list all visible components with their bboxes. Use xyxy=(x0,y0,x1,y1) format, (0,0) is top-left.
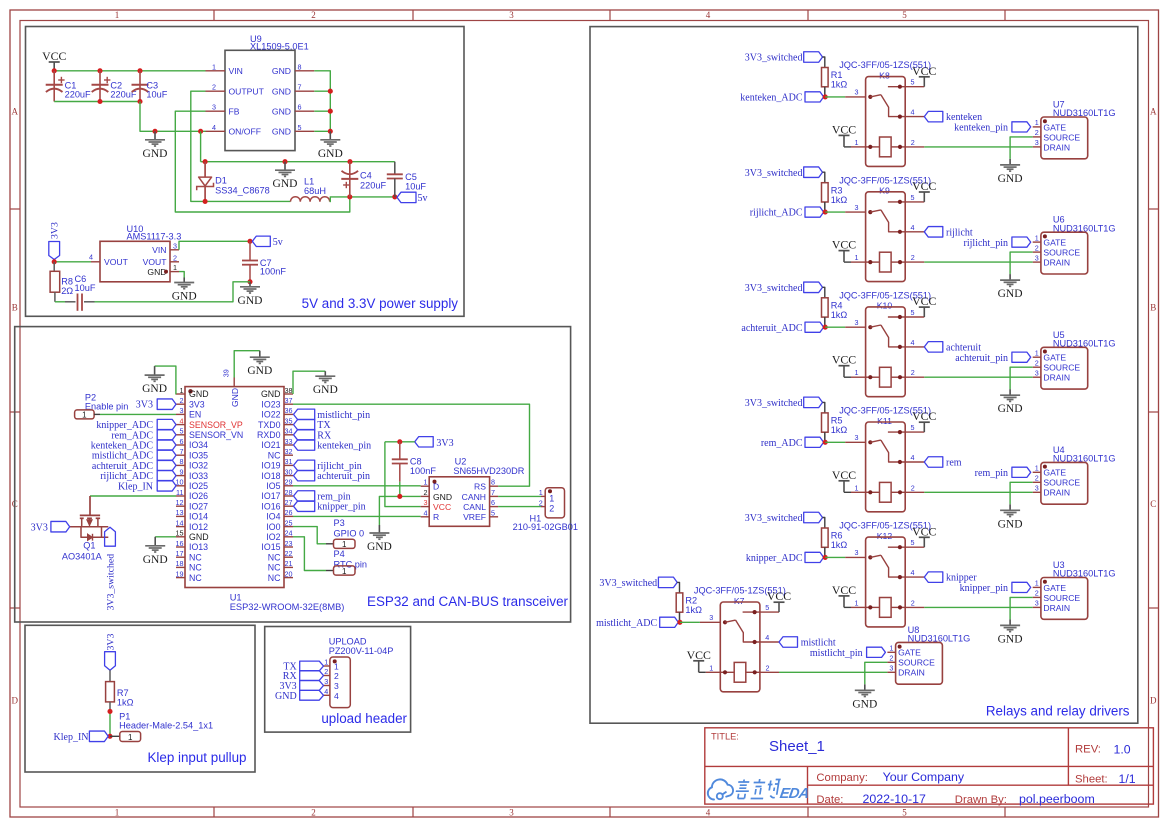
power flag VCC xyxy=(42,49,66,71)
wire rijlicht_ADC to relay pin 3 xyxy=(825,203,865,212)
svg-text:8: 8 xyxy=(491,478,495,487)
svg-text:3V3_switched: 3V3_switched xyxy=(599,578,657,589)
wire C7 to ground xyxy=(247,279,252,284)
title block REV field xyxy=(1075,743,1131,757)
svg-text:upload header: upload header xyxy=(321,711,407,726)
power VCC relay K8 pin 5 xyxy=(905,64,936,87)
svg-text:SN65HVD230DR: SN65HVD230DR xyxy=(453,466,524,476)
svg-text:3: 3 xyxy=(324,677,328,686)
svg-text:18: 18 xyxy=(176,559,184,568)
ground GND U2 xyxy=(367,525,392,553)
svg-text:2: 2 xyxy=(311,10,316,20)
svg-text:1: 1 xyxy=(342,540,347,549)
wire IO23 to U2 RS xyxy=(293,404,530,486)
svg-text:K11: K11 xyxy=(877,416,892,426)
svg-text:5v: 5v xyxy=(418,193,428,204)
svg-text:VCC: VCC xyxy=(433,502,451,512)
svg-text:DRAIN: DRAIN xyxy=(1043,373,1070,383)
svg-text:IO16: IO16 xyxy=(261,501,280,511)
svg-text:SOURCE: SOURCE xyxy=(898,658,935,668)
wire CANH to H1 pin1 xyxy=(498,495,545,497)
svg-text:1: 1 xyxy=(173,263,177,272)
ground GND U1 pin39 xyxy=(247,351,272,378)
svg-text:3V3_switched: 3V3_switched xyxy=(745,283,803,294)
svg-text:VOUT: VOUT xyxy=(104,257,129,267)
wire relay K8 pin 2 to U7 drain xyxy=(905,146,1032,148)
svg-text:GND: GND xyxy=(272,86,291,96)
svg-text:10uF: 10uF xyxy=(146,90,167,100)
svg-text:3V3_switched: 3V3_switched xyxy=(106,554,117,611)
svg-text:1: 1 xyxy=(115,10,120,20)
svg-text:21: 21 xyxy=(285,559,293,568)
net flag knipper_pin to U3 gate xyxy=(960,582,1031,594)
svg-text:1: 1 xyxy=(324,658,328,667)
svg-text:achteruit_pin: achteruit_pin xyxy=(955,353,1008,364)
svg-text:4: 4 xyxy=(334,691,339,701)
svg-text:1: 1 xyxy=(1035,579,1039,588)
svg-text:1: 1 xyxy=(1035,233,1039,242)
svg-text:GATE: GATE xyxy=(1043,583,1066,593)
ground GND U1 pin1 xyxy=(142,366,167,395)
net flag mistlicht relay pin 4 xyxy=(760,637,836,649)
svg-text:D: D xyxy=(1150,696,1157,706)
svg-text:GND: GND xyxy=(998,173,1023,185)
svg-text:Date:: Date: xyxy=(816,794,843,806)
transistor Q1 AO3401A xyxy=(62,496,108,561)
wire C3 bottom to ON/OFF net xyxy=(140,102,206,134)
ground GND U10 xyxy=(172,278,197,303)
svg-text:19: 19 xyxy=(176,569,184,578)
net flag mistlicht_pin U1 pin36 xyxy=(294,409,371,421)
wire U10 VIN to 5v xyxy=(179,239,253,250)
svg-text:2: 2 xyxy=(911,483,915,492)
svg-text:8: 8 xyxy=(298,62,302,71)
net flag rijlicht relay pin 4 xyxy=(905,227,973,239)
svg-text:3V3: 3V3 xyxy=(136,400,153,411)
svg-text:4: 4 xyxy=(706,808,711,818)
svg-text:AO3401A: AO3401A xyxy=(62,551,103,561)
wire rem_ADC to relay pin 3 xyxy=(825,433,865,442)
capacitor C5 10uF xyxy=(387,162,427,197)
net flag rem_ADC xyxy=(761,437,828,449)
svg-text:1: 1 xyxy=(128,733,133,742)
svg-text:GATE: GATE xyxy=(1043,122,1066,132)
power VCC relay K7 pin 1 xyxy=(687,648,721,673)
svg-text:kenteken_pin: kenteken_pin xyxy=(954,123,1008,134)
svg-text:rem_pin: rem_pin xyxy=(975,468,1008,479)
svg-text:1: 1 xyxy=(549,494,554,504)
net flag 3V3_switched Q1 drain xyxy=(105,527,117,610)
svg-text:2: 2 xyxy=(1035,589,1039,598)
title block Drawn By field xyxy=(955,792,1095,806)
svg-text:210-91-02GB01: 210-91-02GB01 xyxy=(513,522,578,532)
svg-text:C4: C4 xyxy=(360,171,372,181)
net flag achteruit_ADC xyxy=(741,322,827,334)
wire U10 GND pin to ground xyxy=(179,272,184,278)
section title: 5V and 3.3V power supply xyxy=(302,296,459,311)
svg-text:13: 13 xyxy=(176,508,184,517)
svg-text:B: B xyxy=(1150,303,1156,313)
svg-text:RXD0: RXD0 xyxy=(257,430,281,440)
svg-text:1: 1 xyxy=(115,808,120,818)
svg-text:4: 4 xyxy=(911,453,915,462)
power VCC relay K12 pin 5 xyxy=(905,524,936,547)
svg-text:16: 16 xyxy=(176,539,184,548)
wire VCC rail to U9 VIN xyxy=(52,68,206,73)
ground GND U4 source xyxy=(998,504,1023,530)
svg-text:Sheet:: Sheet: xyxy=(1075,774,1108,786)
svg-text:29: 29 xyxy=(285,478,293,487)
wire knipper_ADC to relay pin 3 xyxy=(825,548,865,557)
svg-text:VCC: VCC xyxy=(832,238,856,252)
svg-text:pol.peerboom: pol.peerboom xyxy=(1019,792,1095,806)
svg-text:C5: C5 xyxy=(405,172,417,182)
svg-text:PZ200V-11-04P: PZ200V-11-04P xyxy=(329,646,394,656)
svg-text:2: 2 xyxy=(1035,128,1039,137)
svg-text:10: 10 xyxy=(176,478,184,487)
svg-text:GND: GND xyxy=(143,554,168,566)
svg-text:NC: NC xyxy=(268,573,281,583)
svg-text:5: 5 xyxy=(911,538,915,547)
svg-text:GATE: GATE xyxy=(1043,238,1066,248)
svg-text:14: 14 xyxy=(176,518,184,527)
svg-text:K7: K7 xyxy=(734,596,745,606)
svg-text:1: 1 xyxy=(342,567,347,576)
svg-text:2: 2 xyxy=(1035,474,1039,483)
svg-text:3V3: 3V3 xyxy=(436,438,453,449)
svg-text:3: 3 xyxy=(180,406,184,415)
net flag 3V3 upload header pin3 xyxy=(279,681,323,692)
svg-text:IO15: IO15 xyxy=(261,542,280,552)
svg-text:IO32: IO32 xyxy=(189,461,208,471)
svg-text:GND: GND xyxy=(367,541,392,553)
svg-text:GND: GND xyxy=(261,389,281,399)
svg-text:37: 37 xyxy=(285,396,293,405)
capacitor C4 220uF xyxy=(341,162,386,197)
svg-text:rijlicht_pin: rijlicht_pin xyxy=(964,238,1008,249)
svg-text:26: 26 xyxy=(285,508,293,517)
svg-text:achteruit_pin: achteruit_pin xyxy=(317,471,370,482)
svg-text:IO13: IO13 xyxy=(189,542,208,552)
ground GND power input xyxy=(143,131,168,160)
net flag GND upload header pin4 xyxy=(275,690,323,701)
wire CANL to H1 pin2 xyxy=(498,506,545,508)
net flag rem_pin U1 pin28 xyxy=(294,491,351,503)
wire L1 to 5v rail xyxy=(330,194,398,201)
svg-text:D1: D1 xyxy=(215,176,227,186)
svg-text:10uF: 10uF xyxy=(405,182,426,192)
wire 3V3 to U10 VOUT xyxy=(52,259,91,264)
svg-text:GND: GND xyxy=(998,403,1023,415)
svg-text:Header-Male-2.54_1x1: Header-Male-2.54_1x1 xyxy=(119,721,213,731)
svg-text:2: 2 xyxy=(334,671,339,681)
svg-text:VCC: VCC xyxy=(912,179,936,193)
relay K11 JQC-3FF/05-1ZS(551) xyxy=(839,406,931,512)
resistor R8 2ohm xyxy=(50,262,73,302)
transistor U5 NUD3160LT1G xyxy=(1033,330,1116,389)
svg-text:VCC: VCC xyxy=(42,49,66,63)
net flag Klep_IN U1 pin10 xyxy=(118,481,176,493)
svg-text:3V3: 3V3 xyxy=(31,522,48,533)
svg-text:6: 6 xyxy=(298,103,302,112)
svg-text:U1: U1 xyxy=(230,593,242,603)
svg-text:GND: GND xyxy=(272,127,291,137)
net flag 3V3_switched R6 xyxy=(745,512,825,528)
net flag knipper_ADC U1 pin4 xyxy=(96,419,176,431)
svg-text:IO18: IO18 xyxy=(261,471,280,481)
wire IO26 to Q1 gate xyxy=(90,495,176,497)
svg-text:knipper_pin: knipper_pin xyxy=(960,583,1008,594)
svg-text:2: 2 xyxy=(311,808,316,818)
wire relay K10 pin 2 to U5 drain xyxy=(905,376,1032,378)
net flag kenteken_ADC U1 pin6 xyxy=(91,440,176,452)
svg-text:4: 4 xyxy=(89,252,93,261)
svg-text:GND: GND xyxy=(272,106,291,116)
net flag 3V3_switched R5 xyxy=(745,397,825,413)
svg-text:VCC: VCC xyxy=(912,409,936,423)
svg-text:2: 2 xyxy=(889,654,893,663)
net flag knipper_pin U1 pin27 xyxy=(294,501,366,513)
svg-text:knipper_pin: knipper_pin xyxy=(317,502,365,513)
svg-text:1: 1 xyxy=(180,386,184,395)
capacitor C3 10uF xyxy=(132,71,168,102)
section box: Klep input pullup xyxy=(25,625,255,772)
svg-text:VCC: VCC xyxy=(767,589,791,603)
svg-text:IO35: IO35 xyxy=(189,450,208,460)
svg-text:4: 4 xyxy=(911,108,915,117)
wire U2 GND to ground xyxy=(379,482,420,525)
svg-text:28: 28 xyxy=(285,488,293,497)
svg-text:GND: GND xyxy=(852,698,877,710)
svg-text:R8: R8 xyxy=(61,277,73,287)
svg-text:10uF: 10uF xyxy=(75,283,96,293)
svg-text:11: 11 xyxy=(176,488,183,497)
svg-text:7: 7 xyxy=(491,488,495,497)
svg-text:3: 3 xyxy=(855,203,859,212)
svg-text:SOURCE: SOURCE xyxy=(1043,248,1080,258)
svg-text:17: 17 xyxy=(176,549,184,558)
ground GND U9 xyxy=(318,131,343,160)
svg-text:15: 15 xyxy=(176,529,184,538)
svg-text:3: 3 xyxy=(212,103,216,112)
relay K9 JQC-3FF/05-1ZS(551) xyxy=(839,175,931,281)
power VCC relay K11 pin 1 xyxy=(832,468,866,493)
wire relay K11 pin 2 to U4 drain xyxy=(905,491,1032,493)
svg-text:GND: GND xyxy=(247,365,272,377)
svg-text:SENSOR_VN: SENSOR_VN xyxy=(189,430,243,440)
net flag 3V3 pullup xyxy=(105,634,117,671)
svg-text:rijlicht: rijlicht xyxy=(946,227,973,238)
logo JLC EDA xyxy=(708,779,811,802)
net flag 5v output xyxy=(397,192,428,204)
svg-text:Relays and relay drivers: Relays and relay drivers xyxy=(986,704,1130,719)
svg-text:mistlicht_pin: mistlicht_pin xyxy=(810,648,863,659)
wire U4 source to ground xyxy=(1010,482,1033,504)
svg-text:20: 20 xyxy=(285,569,293,578)
svg-text:rem: rem xyxy=(946,458,962,469)
section title: Klep input pullup xyxy=(147,750,246,765)
svg-text:XL1509-5.0E1: XL1509-5.0E1 xyxy=(250,42,309,52)
svg-text:R6: R6 xyxy=(831,531,843,541)
svg-text:CANH: CANH xyxy=(462,492,486,502)
svg-text:3: 3 xyxy=(1035,138,1039,147)
capacitor C2 220uF xyxy=(92,71,137,102)
svg-text:C8: C8 xyxy=(410,456,422,466)
svg-text:VREF: VREF xyxy=(463,512,486,522)
net flag rem relay pin 4 xyxy=(905,457,962,469)
power VCC relay K12 pin 1 xyxy=(832,583,866,608)
svg-text:DRAIN: DRAIN xyxy=(1043,488,1070,498)
svg-text:2Ω: 2Ω xyxy=(61,286,73,296)
power VCC relay K11 pin 5 xyxy=(905,409,936,432)
title block Sheet field xyxy=(1075,772,1136,786)
svg-text:35: 35 xyxy=(285,416,293,425)
svg-text:IO12: IO12 xyxy=(189,522,208,532)
svg-text:2: 2 xyxy=(911,138,915,147)
ground GND U3 source xyxy=(998,619,1023,645)
svg-text:SOURCE: SOURCE xyxy=(1043,363,1080,373)
svg-text:DRAIN: DRAIN xyxy=(1043,258,1070,268)
wire U1 pin38 GND to ground xyxy=(293,371,325,394)
svg-text:220uF: 220uF xyxy=(65,90,91,100)
net flag rijlicht_ADC xyxy=(750,207,828,219)
svg-text:K9: K9 xyxy=(879,186,890,196)
svg-text:3: 3 xyxy=(855,88,859,97)
svg-text:GND: GND xyxy=(189,532,209,542)
wire C6 to ground net xyxy=(95,282,251,302)
svg-text:3: 3 xyxy=(424,498,428,507)
svg-text:GND: GND xyxy=(272,66,291,76)
svg-text:39: 39 xyxy=(222,369,231,377)
connector UPLOAD PZ200V-11-04P xyxy=(324,637,394,708)
wire IO0 to P3 xyxy=(293,527,334,544)
svg-text:NC: NC xyxy=(189,552,202,562)
transistor U6 NUD3160LT1G xyxy=(1033,215,1116,274)
svg-text:30: 30 xyxy=(285,467,293,476)
relay K7 JQC-3FF/05-1ZS(551) xyxy=(694,586,786,692)
wire relay K7 pin 2 to U8 drain xyxy=(760,671,888,673)
svg-text:2: 2 xyxy=(324,667,328,676)
svg-text:GND: GND xyxy=(142,383,167,395)
net flag rem_ADC U1 pin5 xyxy=(111,430,176,442)
svg-text:23: 23 xyxy=(285,539,293,548)
net flag 3V3_switched R3 xyxy=(745,167,825,183)
ground GND mid rail xyxy=(273,162,298,191)
svg-text:Klep_IN: Klep_IN xyxy=(54,732,89,743)
svg-text:AMS1117-3.3: AMS1117-3.3 xyxy=(127,231,182,241)
svg-text:1: 1 xyxy=(334,662,339,672)
relay K10 JQC-3FF/05-1ZS(551) xyxy=(839,291,931,397)
capacitor C8 100nF xyxy=(392,442,437,482)
svg-text:IO26: IO26 xyxy=(189,491,208,501)
title block frame xyxy=(705,728,1154,804)
wire U5 source to ground xyxy=(1010,367,1033,389)
svg-text:2: 2 xyxy=(539,498,543,507)
svg-text:R4: R4 xyxy=(831,301,843,311)
svg-text:32: 32 xyxy=(285,447,293,456)
capacitor C6 10uF xyxy=(55,274,96,311)
svg-text:5: 5 xyxy=(902,10,907,20)
svg-text:IO19: IO19 xyxy=(261,461,280,471)
net flag 3V3 Q1 source xyxy=(31,521,70,533)
svg-text:B: B xyxy=(12,303,18,313)
svg-text:1: 1 xyxy=(82,411,87,420)
svg-text:5: 5 xyxy=(902,808,907,818)
net flag kenteken relay pin 4 xyxy=(905,111,982,123)
svg-text:25: 25 xyxy=(285,518,293,527)
svg-text:GATE: GATE xyxy=(1043,353,1066,363)
svg-text:Q1: Q1 xyxy=(83,540,95,550)
svg-text:4: 4 xyxy=(706,10,711,20)
svg-text:5V and 3.3V power supply: 5V and 3.3V power supply xyxy=(302,296,459,311)
svg-text:rem_ADC: rem_ADC xyxy=(761,438,803,449)
svg-text:IO23: IO23 xyxy=(261,399,280,409)
inductor L1 68uH xyxy=(291,177,330,202)
svg-text:DRAIN: DRAIN xyxy=(898,668,925,678)
svg-text:EDA: EDA xyxy=(779,786,810,802)
svg-text:R5: R5 xyxy=(831,416,843,426)
svg-text:SOURCE: SOURCE xyxy=(1043,478,1080,488)
net flag mistlicht_ADC U1 pin7 xyxy=(92,450,176,462)
wire 3V3 to U2 VCC xyxy=(385,439,421,506)
svg-text:RS: RS xyxy=(474,482,486,492)
resistor R5 1k xyxy=(822,413,848,442)
svg-text:38: 38 xyxy=(285,386,293,395)
svg-text:5: 5 xyxy=(491,508,495,517)
resistor R4 1k xyxy=(822,298,848,327)
svg-text:1: 1 xyxy=(855,483,859,492)
svg-text:5: 5 xyxy=(298,123,302,132)
net flag mistlicht_ADC xyxy=(596,617,682,629)
svg-text:3: 3 xyxy=(1035,484,1039,493)
ground GND U8 source xyxy=(852,684,877,710)
svg-text:OUTPUT: OUTPUT xyxy=(229,86,265,96)
svg-text:K12: K12 xyxy=(877,531,893,541)
svg-text:NC: NC xyxy=(189,563,202,573)
svg-text:4: 4 xyxy=(911,223,915,232)
svg-text:1: 1 xyxy=(1035,118,1039,127)
svg-text:IO4: IO4 xyxy=(266,512,280,522)
svg-text:1: 1 xyxy=(855,253,859,262)
net flag achteruit_ADC U1 pin8 xyxy=(92,460,176,472)
svg-text:GATE: GATE xyxy=(898,648,921,658)
relay K12 JQC-3FF/05-1ZS(551) xyxy=(839,521,931,627)
svg-text:3: 3 xyxy=(1035,369,1039,378)
wire U6 source to ground xyxy=(1010,252,1033,274)
svg-text:P3: P3 xyxy=(334,518,345,528)
svg-text:31: 31 xyxy=(285,457,293,466)
svg-text:2: 2 xyxy=(180,396,184,405)
svg-text:9: 9 xyxy=(180,467,184,476)
svg-text:3V3: 3V3 xyxy=(189,399,205,409)
svg-text:Drawn By:: Drawn By: xyxy=(955,794,1007,806)
ground GND U1 pin38 xyxy=(313,371,338,396)
section box: Relays and relay drivers xyxy=(590,27,1138,724)
svg-text:R3: R3 xyxy=(831,185,843,195)
svg-text:3: 3 xyxy=(1035,599,1039,608)
wire U7 source to ground xyxy=(1010,137,1033,159)
svg-text:5: 5 xyxy=(911,193,915,202)
svg-text:TXD0: TXD0 xyxy=(258,420,281,430)
svg-text:34: 34 xyxy=(285,427,293,436)
svg-text:4: 4 xyxy=(324,687,328,696)
capacitor C1 220uF xyxy=(46,71,91,102)
svg-text:3V3_switched: 3V3_switched xyxy=(745,513,803,524)
svg-text:5: 5 xyxy=(911,423,915,432)
MCU U1 ESP32-WROOM-32E(8MB) xyxy=(176,369,345,612)
wire ground rail above D1 xyxy=(203,159,395,164)
svg-text:IO25: IO25 xyxy=(189,481,208,491)
